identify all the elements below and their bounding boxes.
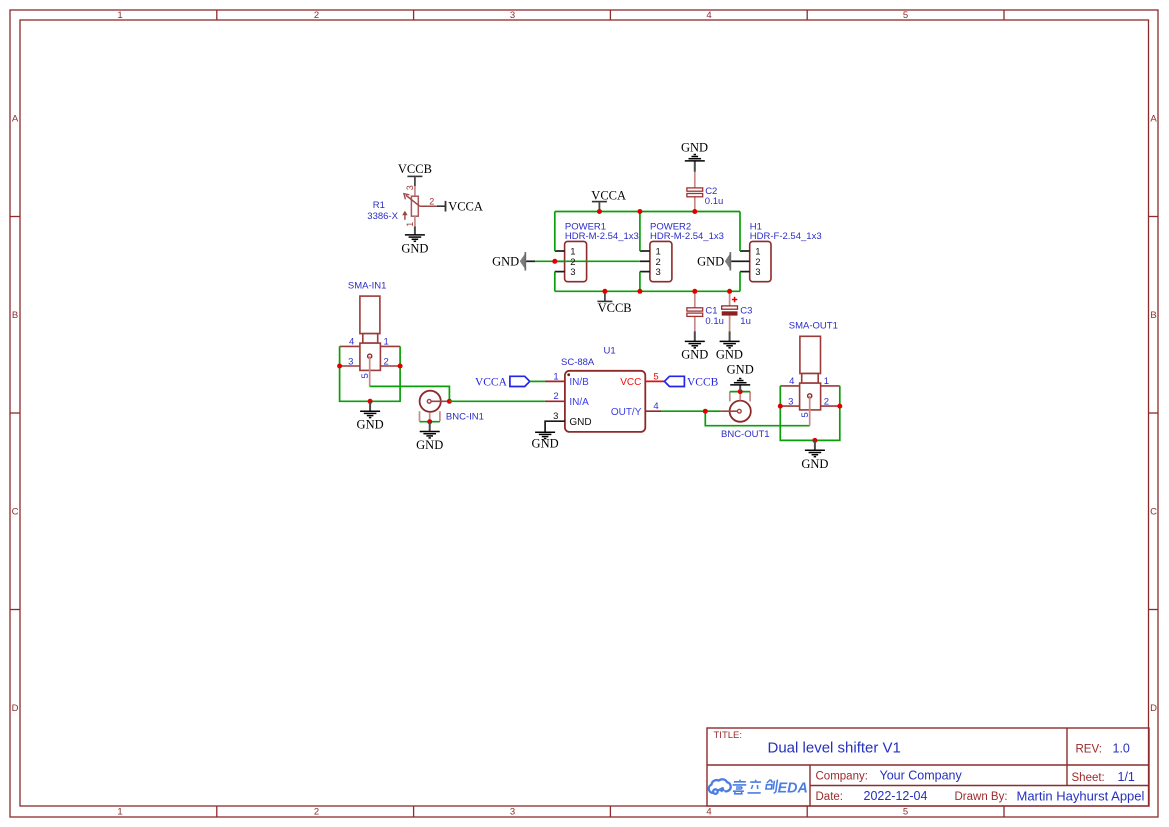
svg-text:B: B xyxy=(12,310,18,321)
SMA-IN1 pin 3 xyxy=(340,356,360,367)
wire junction to BNC-OUT1 xyxy=(705,410,720,412)
svg-text:Date:: Date: xyxy=(816,791,844,803)
junction SMA-IN1 gnd xyxy=(368,399,373,404)
wire H1 pin3 drop xyxy=(739,272,741,292)
svg-text:IN/B: IN/B xyxy=(569,377,589,388)
svg-text:1: 1 xyxy=(405,222,415,227)
wire POWER1 pin1 riser xyxy=(554,212,556,252)
svg-text:Your Company: Your Company xyxy=(880,768,963,782)
svg-text:Drawn By:: Drawn By: xyxy=(955,791,1008,803)
svg-text:IN/A: IN/A xyxy=(569,397,589,408)
SMA-OUT1 pin 1 xyxy=(821,376,840,387)
svg-text:1: 1 xyxy=(384,337,389,348)
svg-text:A: A xyxy=(1150,114,1157,125)
svg-text:3: 3 xyxy=(405,185,415,190)
net label VCCB (R1 top) xyxy=(398,162,432,186)
svg-text:1u: 1u xyxy=(740,316,751,327)
svg-text:EDA: EDA xyxy=(778,781,808,797)
svg-text:TITLE:: TITLE: xyxy=(714,730,743,741)
svg-text:5: 5 xyxy=(903,10,908,21)
ground (C1) xyxy=(681,331,708,361)
header H1 body xyxy=(740,241,771,281)
svg-text:Dual level shifter V1: Dual level shifter V1 xyxy=(768,740,901,757)
svg-text:GND: GND xyxy=(401,241,428,255)
svg-text:4: 4 xyxy=(706,807,711,818)
svg-text:Company:: Company: xyxy=(816,770,868,782)
header POWER2 body xyxy=(640,241,672,281)
svg-text:BNC-IN1: BNC-IN1 xyxy=(446,411,484,422)
POWER2 pin numbers 1 2 3 xyxy=(656,247,661,279)
svg-text:2: 2 xyxy=(429,196,434,206)
svg-text:3: 3 xyxy=(788,396,793,407)
svg-text:B: B xyxy=(1150,310,1156,321)
SMA-IN1 pin 1 xyxy=(380,337,400,348)
svg-text:0.1u: 0.1u xyxy=(705,316,724,327)
junction POWER2 bottom xyxy=(637,289,642,294)
ground (BNC-IN1) xyxy=(416,422,443,452)
wire POWER2 pin3 drop xyxy=(639,272,641,292)
ground (C2, above) xyxy=(681,141,708,172)
svg-text:HDR-M-2.54_1x3: HDR-M-2.54_1x3 xyxy=(565,231,639,242)
junction BNC-OUT1 shield xyxy=(738,389,743,394)
wire BNC-OUT1 shield xyxy=(730,391,750,393)
svg-text:2: 2 xyxy=(314,807,319,818)
svg-text:5: 5 xyxy=(903,807,908,818)
ground (BNC-OUT1, above) xyxy=(727,363,754,392)
svg-text:VCCA: VCCA xyxy=(448,199,483,213)
wire top rail VCCA xyxy=(555,211,740,213)
junction BNC-IN1 shield xyxy=(427,419,432,424)
svg-text:1: 1 xyxy=(117,10,122,21)
op-amp U1 body xyxy=(565,371,645,432)
net port GND (left of H1) xyxy=(697,252,740,270)
wire VCCA flag to U1.1 xyxy=(530,380,545,382)
svg-text:1.0: 1.0 xyxy=(1113,742,1130,756)
SMA-OUT1 pin 5 xyxy=(800,396,811,426)
svg-text:SMA-IN1: SMA-IN1 xyxy=(348,281,387,292)
svg-text:3: 3 xyxy=(510,10,515,21)
ground (SMA-IN1) xyxy=(357,401,384,431)
svg-text:GND: GND xyxy=(357,418,384,432)
ground (U1 pin 3) xyxy=(532,432,559,450)
connector BNC-OUT1 xyxy=(720,392,750,422)
wire junction down to SMA-OUT1 xyxy=(705,411,809,426)
svg-text:SMA-OUT1: SMA-OUT1 xyxy=(789,321,838,332)
svg-text:1: 1 xyxy=(553,371,558,382)
SMA-IN1 pin 2 xyxy=(380,356,400,367)
wire GND net across headers xyxy=(535,260,640,262)
net label VCCB (bottom rail) xyxy=(597,291,631,315)
svg-text:GND: GND xyxy=(681,347,708,361)
svg-text:GND: GND xyxy=(416,438,443,452)
junction C2 top rail xyxy=(692,209,697,214)
svg-text:2: 2 xyxy=(553,391,558,402)
svg-text:C1: C1 xyxy=(705,306,717,317)
svg-text:4: 4 xyxy=(789,376,794,387)
svg-text:3: 3 xyxy=(755,267,760,278)
junction VCCB label xyxy=(602,289,607,294)
svg-text:4: 4 xyxy=(706,10,711,21)
svg-text:3: 3 xyxy=(553,411,558,422)
svg-text:Sheet:: Sheet: xyxy=(1072,772,1105,784)
svg-text:4: 4 xyxy=(349,337,354,348)
svg-text:3: 3 xyxy=(510,807,515,818)
svg-text:5: 5 xyxy=(360,373,371,378)
net label VCCA (top rail) xyxy=(591,188,626,211)
U1 pin 3 GND xyxy=(545,411,592,432)
SMA-OUT1 pin 4 xyxy=(780,376,799,387)
net flag VCCA (to U1 pin 1) xyxy=(475,376,530,388)
wire H1 pin1 riser xyxy=(739,212,741,252)
svg-text:VCCB: VCCB xyxy=(398,162,432,176)
svg-text:2: 2 xyxy=(824,396,829,407)
svg-text:VCCA: VCCA xyxy=(591,188,626,202)
SMA-OUT1 pin 2 xyxy=(821,396,840,407)
SMA-OUT1 pin 3 xyxy=(780,396,799,407)
svg-text:GND: GND xyxy=(697,255,724,269)
svg-text:GND: GND xyxy=(681,141,708,155)
wire BNC-IN1 shield xyxy=(420,421,440,423)
connector BNC-IN1 xyxy=(420,391,450,422)
svg-text:VCC: VCC xyxy=(620,377,641,388)
svg-text:1/1: 1/1 xyxy=(1118,770,1135,784)
wire SMA-IN1 signal to BNC junction xyxy=(370,386,450,401)
header POWER1 body xyxy=(555,241,587,281)
ground (R1) xyxy=(401,226,428,255)
junction SMA-OUT1 pin3 xyxy=(778,404,783,409)
wire SMA-IN1 ground loop xyxy=(340,346,401,401)
svg-text:A: A xyxy=(12,114,19,125)
wire SMA-OUT1 ground loop xyxy=(780,386,840,441)
svg-text:HDR-F-2.54_1x3: HDR-F-2.54_1x3 xyxy=(750,231,822,242)
junction GND wire xyxy=(552,259,557,264)
svg-text:2: 2 xyxy=(384,356,389,367)
svg-text:0.1u: 0.1u xyxy=(705,196,724,207)
junction POWER2 top xyxy=(637,209,642,214)
junction C1 bottom rail xyxy=(692,289,697,294)
resistor R1 (3386-X potentiometer) xyxy=(402,185,437,227)
svg-text:5: 5 xyxy=(800,412,811,417)
ground (C3) xyxy=(716,331,743,361)
svg-text:3: 3 xyxy=(348,356,353,367)
svg-text:GND: GND xyxy=(727,363,754,377)
svg-text:3: 3 xyxy=(570,267,575,278)
net flag VCCB (from U1 pin 5) xyxy=(664,376,718,388)
svg-text:GND: GND xyxy=(569,417,591,428)
SMA-IN1 pin 5 xyxy=(360,356,371,386)
U1 pin 4 OUT/Y xyxy=(611,401,662,418)
svg-text:3386-X: 3386-X xyxy=(367,211,398,222)
svg-text:Martin Hayhurst Appel: Martin Hayhurst Appel xyxy=(1017,788,1145,803)
svg-text:5: 5 xyxy=(653,371,658,382)
ground (SMA-OUT1) xyxy=(801,440,828,470)
POWER1 pin numbers 1 2 3 xyxy=(570,247,575,279)
svg-text:3: 3 xyxy=(656,267,661,278)
svg-text:4: 4 xyxy=(653,401,658,412)
junction C3 bottom rail xyxy=(727,289,732,294)
net port GND (left of POWER1) xyxy=(492,252,535,270)
wire BNC-IN1 to U1.2 xyxy=(449,400,545,402)
junction VCCA label xyxy=(597,209,602,214)
capacitor C1 xyxy=(687,291,703,331)
svg-text:R1: R1 xyxy=(373,200,385,211)
connector SMA-IN1 body xyxy=(360,296,381,370)
junction BNC-IN1 signal xyxy=(447,399,452,404)
junction SMA-IN1 pin3 xyxy=(337,364,342,369)
svg-text:C: C xyxy=(1150,507,1157,518)
svg-text:1: 1 xyxy=(117,807,122,818)
svg-text:D: D xyxy=(12,703,19,714)
wire bottom rail VCCB xyxy=(555,290,740,292)
svg-text:BNC-OUT1: BNC-OUT1 xyxy=(721,429,770,440)
svg-text:GND: GND xyxy=(801,457,828,471)
net port VCCA (R1 wiper) xyxy=(437,199,483,213)
SMA-IN1 pin 4 xyxy=(340,337,360,348)
svg-text:C: C xyxy=(12,507,19,518)
U1 pin 1 IN/B xyxy=(545,371,589,388)
svg-text:VCCB: VCCB xyxy=(687,376,719,388)
svg-text:GND: GND xyxy=(532,437,559,451)
svg-text:GND: GND xyxy=(716,347,743,361)
U1 pin 5 VCC xyxy=(620,371,664,388)
wire POWER2 pin1 riser xyxy=(639,212,641,252)
junction SMA-OUT1 pin2 xyxy=(837,404,842,409)
svg-text:SC-88A: SC-88A xyxy=(561,357,595,368)
svg-text:HDR-M-2.54_1x3: HDR-M-2.54_1x3 xyxy=(650,231,724,242)
svg-text:VCCB: VCCB xyxy=(598,301,632,315)
svg-text:C3: C3 xyxy=(740,306,752,317)
junction SMA-IN1 pin2 xyxy=(398,364,403,369)
junction SMA-OUT1 gnd xyxy=(812,438,817,443)
junction OUT node xyxy=(703,409,708,414)
svg-text:OUT/Y: OUT/Y xyxy=(611,407,642,418)
svg-text:1: 1 xyxy=(824,376,829,387)
svg-text:REV:: REV: xyxy=(1076,743,1102,755)
H1 pin numbers 1 2 3 xyxy=(755,247,760,279)
U1 pin 2 IN/A xyxy=(545,391,589,408)
svg-text:2: 2 xyxy=(314,10,319,21)
svg-text:GND: GND xyxy=(492,255,519,269)
svg-text:VCCA: VCCA xyxy=(475,376,508,388)
capacitor C3 (polarized) xyxy=(722,291,738,331)
svg-text:2022-12-04: 2022-12-04 xyxy=(864,789,928,803)
svg-text:D: D xyxy=(1150,703,1157,714)
wire POWER1 pin3 drop xyxy=(554,272,556,292)
wire U1.4 OUT to junction xyxy=(662,410,706,412)
svg-text:U1: U1 xyxy=(604,346,616,357)
connector SMA-OUT1 body xyxy=(800,336,821,410)
capacitor C2 xyxy=(687,172,703,212)
